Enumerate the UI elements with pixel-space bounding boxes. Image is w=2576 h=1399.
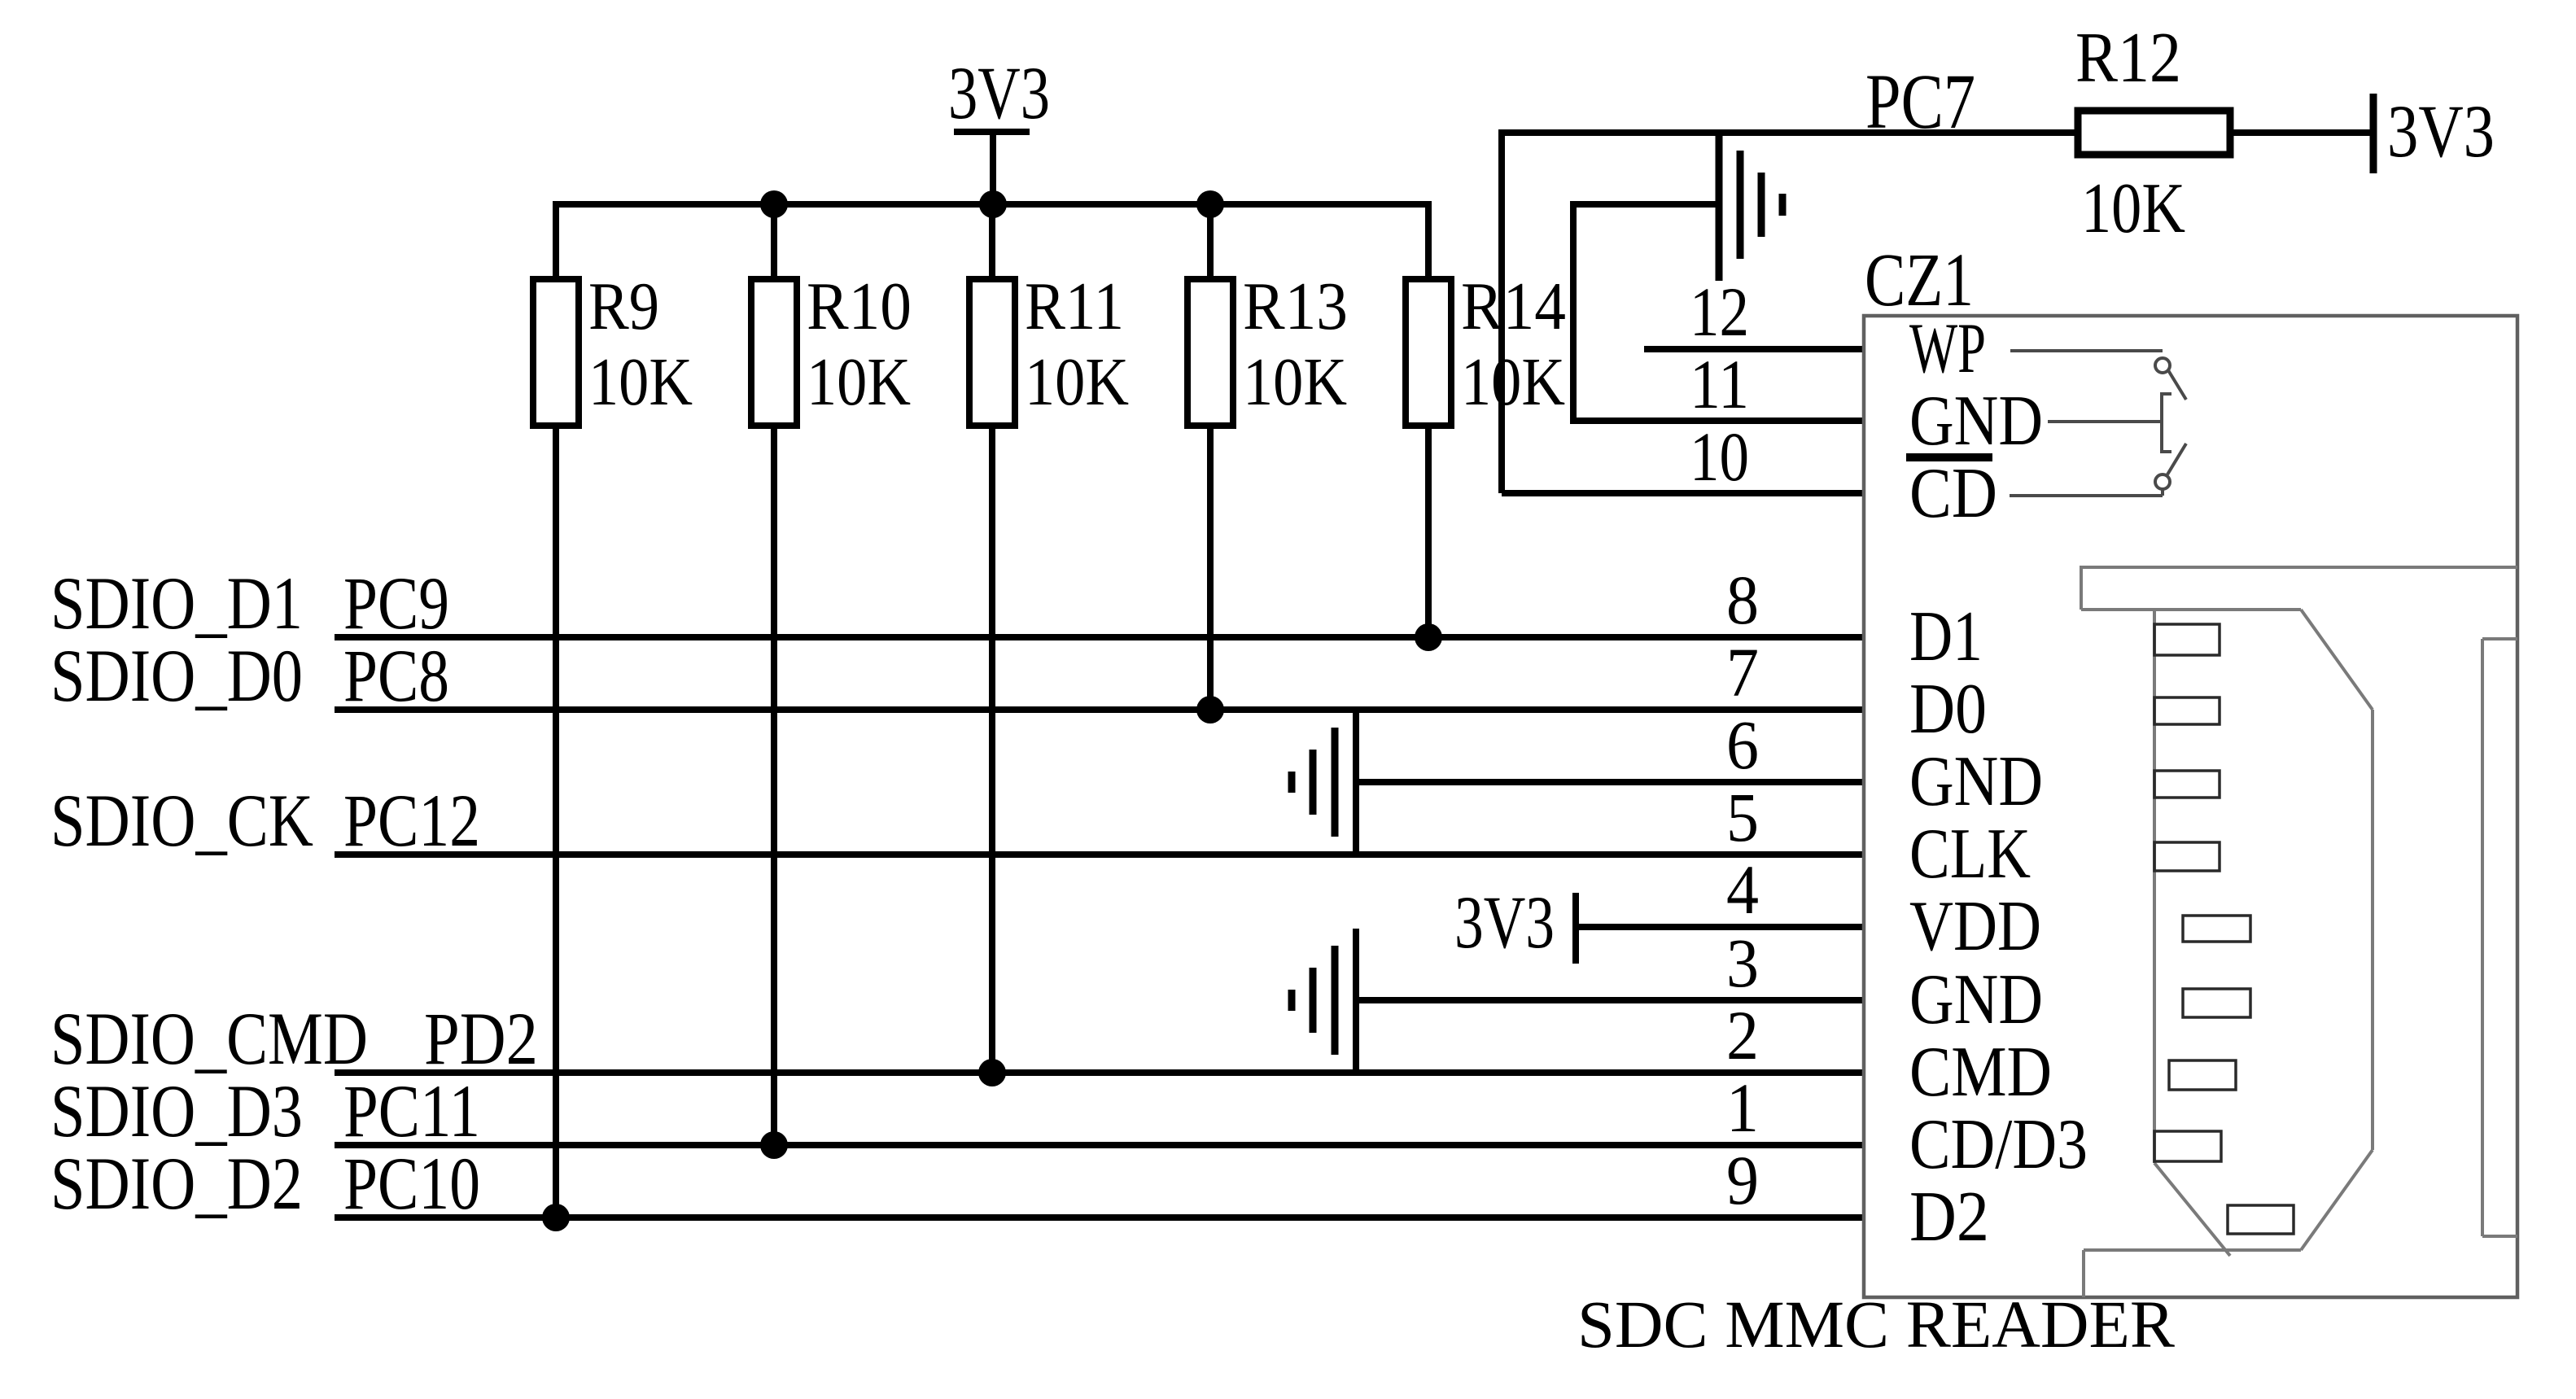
svg-text:8: 8 [1726, 561, 1759, 639]
svg-text:10K: 10K [807, 344, 911, 420]
svg-text:10K: 10K [1243, 344, 1347, 420]
sd card contact pad 2 [2154, 697, 2220, 724]
svg-text:CLK: CLK [1909, 815, 2031, 894]
svg-text:10K: 10K [588, 344, 693, 420]
wire 3V3 stem to pull-up bus [990, 129, 996, 204]
junction bus/R11/3V3 [979, 190, 1007, 218]
wire pin 10 (CD) [1502, 490, 1864, 496]
switch CD contact circle [2155, 474, 2170, 489]
svg-text:10K: 10K [2081, 169, 2185, 248]
svg-text:PC8: PC8 [343, 634, 449, 717]
ground (pin 3 GND) [1292, 929, 1356, 1076]
wire SDIO_CMD (PD2) [335, 1069, 1864, 1076]
sd card slot [2482, 639, 2517, 1236]
svg-text:CD/D3: CD/D3 [1909, 1105, 2088, 1184]
svg-text:3V3: 3V3 [948, 51, 1050, 134]
svg-text:WP: WP [1909, 309, 1986, 388]
svg-text:SDIO_D3: SDIO_D3 [50, 1069, 303, 1152]
wire GND to switch [2048, 420, 2160, 423]
svg-text:11: 11 [1690, 345, 1749, 423]
wire pin 6 to ground [1356, 779, 1864, 785]
svg-text:GND: GND [1909, 960, 2043, 1039]
svg-text:1: 1 [1726, 1069, 1759, 1147]
wire pin 4 VDD [1576, 924, 1864, 930]
svg-text:SDC MMC READER: SDC MMC READER [1577, 1287, 2176, 1362]
wire R10 top stub [771, 204, 777, 283]
wire SDIO_D3 (PC11) [335, 1142, 1864, 1148]
svg-text:5: 5 [1726, 778, 1759, 856]
wire R11 top stub [989, 204, 995, 283]
junction R13/D0 wire [1196, 696, 1224, 724]
power 3V3 bar (VDD pin 4) [1572, 893, 1579, 964]
svg-text:D0: D0 [1909, 670, 1987, 749]
sd card contact pad 1 [2154, 624, 2220, 655]
svg-text:PC12: PC12 [343, 779, 480, 862]
switch blade top [2168, 370, 2186, 400]
svg-text:PD2: PD2 [424, 997, 538, 1080]
junction R11/CMD wire [978, 1059, 1006, 1086]
switch blade bottom [2167, 444, 2186, 474]
switch CD nub [2161, 489, 2164, 496]
junction bus/R10 [760, 190, 788, 218]
sd card contact pad 5 [2183, 916, 2250, 942]
ground (pin 6 GND) [1292, 710, 1356, 858]
svg-text:SDIO_D1: SDIO_D1 [50, 562, 303, 645]
resistor R13 [1187, 279, 1233, 426]
wire pin 3 to ground [1356, 997, 1864, 1003]
svg-text:PC11: PC11 [343, 1069, 480, 1152]
wire R11 bottom stub [989, 422, 995, 1073]
wire R9 top stub [553, 204, 559, 283]
svg-text:PC9: PC9 [343, 562, 449, 645]
svg-text:3V3: 3V3 [2387, 90, 2495, 173]
svg-text:12: 12 [1690, 273, 1749, 351]
svg-text:9: 9 [1726, 1141, 1759, 1219]
sd card bottom-right diagonal [2301, 1150, 2373, 1250]
sd card contact pad 3 [2154, 771, 2220, 798]
svg-text:D2: D2 [1909, 1178, 1989, 1257]
resistor R9 [533, 279, 579, 426]
svg-text:CMD: CMD [1909, 1033, 2052, 1112]
svg-text:PC10: PC10 [343, 1142, 480, 1225]
svg-text:3V3: 3V3 [1454, 881, 1555, 964]
power 3V3 bar (right) [2370, 94, 2377, 173]
junction bus/R13 [1196, 190, 1224, 218]
sd card contact pad 4 [2154, 842, 2220, 871]
wire inner loop [1573, 204, 1864, 421]
sd card contact pad 6 [2183, 989, 2250, 1017]
svg-text:3: 3 [1726, 924, 1759, 1002]
svg-text:10K: 10K [1461, 344, 1565, 420]
svg-text:2: 2 [1726, 996, 1759, 1074]
svg-text:R10: R10 [807, 269, 912, 344]
svg-text:SDIO_CMD: SDIO_CMD [50, 997, 368, 1080]
junction R10/D3 wire [760, 1131, 788, 1159]
svg-text:10K: 10K [1025, 344, 1129, 420]
svg-text:SDIO_D0: SDIO_D0 [50, 634, 303, 717]
svg-text:CD: CD [1909, 454, 1997, 533]
sd card tab bottom [2081, 608, 2301, 611]
wire R12 to 3V3 [2230, 129, 2373, 136]
svg-text:7: 7 [1726, 633, 1759, 711]
svg-text:10: 10 [1690, 418, 1749, 496]
overline CD [1906, 453, 1992, 461]
svg-text:D1: D1 [1909, 597, 1983, 676]
wire R14 top stub [1425, 204, 1432, 283]
sd card shelf drop [2082, 1250, 2085, 1297]
sd card top-right diagonal [2301, 610, 2373, 710]
power 3V3 bar (top) [954, 129, 1030, 135]
junction R9/D2 wire [542, 1204, 570, 1231]
svg-text:GND: GND [1909, 382, 2043, 461]
resistor R11 [969, 279, 1015, 426]
switch pole bracket [2162, 394, 2171, 452]
svg-text:R11: R11 [1025, 269, 1124, 344]
junction R14/D1 wire [1415, 623, 1442, 651]
sd card contact pad 8 [2154, 1131, 2221, 1161]
svg-text:6: 6 [1726, 706, 1759, 784]
wire SDIO_CK (PC12) [335, 851, 1864, 858]
svg-text:R9: R9 [588, 269, 659, 344]
wire WP to switch [2010, 349, 2163, 352]
sd card contact pad 9 [2228, 1205, 2294, 1234]
sd card left edge [2153, 610, 2156, 1163]
connector CZ1 box [1864, 316, 2517, 1297]
wire R13 bottom stub [1207, 422, 1214, 710]
svg-text:R13: R13 [1243, 269, 1348, 344]
wire outer loop vertical [1498, 129, 1505, 493]
sd card bottom shelf [2084, 1248, 2301, 1252]
svg-text:R12: R12 [2075, 19, 2181, 98]
wire R9 bottom stub [553, 422, 559, 1218]
sd card contact pad 7 [2169, 1060, 2236, 1090]
svg-text:R14: R14 [1461, 269, 1566, 344]
svg-text:4: 4 [1726, 850, 1759, 929]
wire pin 12 (WP) [1644, 346, 1864, 352]
svg-text:VDD: VDD [1909, 887, 2041, 966]
wire R14 bottom stub [1425, 422, 1432, 637]
wire CD to switch [2010, 494, 2163, 497]
switch WP contact circle [2155, 358, 2170, 373]
wire SDIO_D2 (PC10) [335, 1214, 1864, 1221]
svg-text:SDIO_D2: SDIO_D2 [50, 1142, 303, 1225]
wire PC7 (outer loop top) [1502, 129, 2078, 136]
wire pull-up bus (3V3 net) [553, 201, 1432, 208]
wire SDIO_D1 (PC9) [335, 634, 1864, 640]
wire SDIO_D0 (PC8) [335, 706, 1864, 713]
sd card right edge [2371, 710, 2374, 1150]
resistor R10 [751, 279, 797, 426]
sd card tab outline [2081, 567, 2517, 610]
wire R10 bottom stub [771, 422, 777, 1145]
resistor R12 [2078, 111, 2230, 155]
wire R13 top stub [1207, 204, 1214, 283]
sd card bottom-left diagonal [2154, 1163, 2230, 1256]
ground (top right) [1719, 133, 1782, 281]
resistor R14 [1406, 279, 1451, 426]
svg-text:SDIO_CK: SDIO_CK [50, 779, 313, 862]
svg-text:GND: GND [1909, 742, 2043, 821]
